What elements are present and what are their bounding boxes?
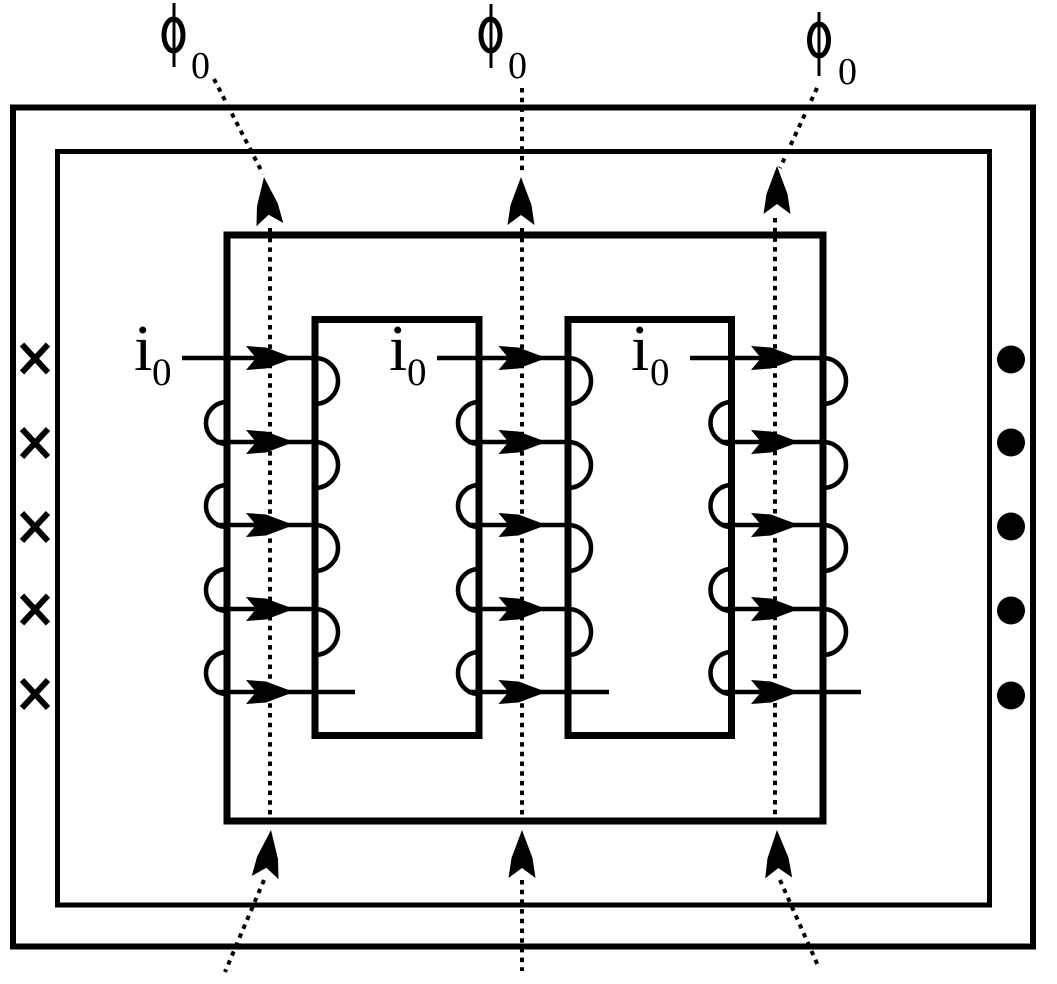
- current-into-page X marker 3: [22, 513, 48, 541]
- svg-text:0: 0: [152, 351, 172, 394]
- current-out-of-page dot marker 3: [997, 513, 1025, 541]
- winding 1 right-side loop arc 1: [315, 358, 338, 404]
- flux arrow up, bottom of centre leg: [509, 830, 536, 878]
- winding 3 turn 1 wire: [690, 356, 823, 361]
- winding 3 current arrow turn 1: [751, 346, 799, 370]
- winding 1 turn 3 wire: [216, 523, 315, 528]
- svg-text:0: 0: [191, 45, 210, 87]
- winding 2 left-side loop arc 1: [458, 402, 479, 444]
- winding 3 right-side loop arc 4: [823, 609, 846, 655]
- current-out-of-page dot marker 2: [997, 429, 1025, 457]
- flux label phi_0 top-middle: [481, 4, 500, 68]
- winding 1 current arrow turn 1: [246, 346, 294, 370]
- winding 1 current arrow turn 4: [246, 597, 294, 621]
- winding 2 right-side loop arc 1: [568, 358, 591, 404]
- svg-text:i: i: [389, 312, 407, 385]
- winding 3 right-side loop arc 1: [823, 358, 846, 404]
- winding 1 left-side loop arc 1: [206, 402, 227, 444]
- core window 1: [315, 320, 479, 736]
- flux arrow up, top of centre leg: [508, 177, 535, 225]
- current-out-of-page dot marker 1: [997, 346, 1025, 374]
- flux arrow up, bottom of right leg: [764, 830, 793, 879]
- winding 2 turn 4 wire: [468, 607, 568, 612]
- winding 1 current arrow turn 3: [246, 513, 294, 537]
- winding 2 current arrow turn 1: [499, 346, 547, 370]
- svg-text:0: 0: [508, 45, 527, 87]
- flux label phi_0 top-left: [164, 3, 183, 67]
- svg-text:0: 0: [407, 351, 427, 394]
- flux arrow up, bottom of left leg: [252, 828, 285, 879]
- winding 1 turn 2 wire: [216, 440, 315, 445]
- winding 2 turn 1 wire: [437, 356, 568, 361]
- svg-text:0: 0: [838, 51, 857, 93]
- winding 2 current arrow turn 3: [499, 513, 547, 537]
- winding 1 left-side loop arc 2: [206, 485, 227, 527]
- transformer core outline: [227, 235, 823, 821]
- flux line phi0 left: bottom diagonal dotted segment: [225, 880, 264, 972]
- winding 3 left-side loop arc 3: [711, 569, 732, 611]
- winding 1 left-side loop arc 3: [206, 569, 227, 611]
- flux line phi0 right: vertical dotted segment through right leg: [773, 218, 777, 828]
- winding 3 right-side loop arc 3: [823, 525, 846, 571]
- winding 2 current arrow turn 5: [499, 680, 547, 704]
- winding 3 turn 4 wire: [721, 607, 823, 612]
- flux label phi_0 top-right: [810, 12, 829, 76]
- winding 2 right-side loop arc 2: [568, 442, 591, 488]
- winding 3 left-side loop arc 1: [711, 402, 732, 444]
- winding 3 turn 2 wire: [721, 440, 823, 445]
- winding 2 turn 3 wire: [468, 523, 568, 528]
- winding 1 turn 4 wire: [216, 607, 315, 612]
- winding 2 right-side loop arc 3: [568, 525, 591, 571]
- winding 3 current arrow turn 2: [751, 430, 799, 454]
- winding 3 turn 5 wire: [721, 690, 861, 695]
- flux line phi0 right: top diagonal dotted segment: [780, 88, 817, 168]
- flux line phi0 middle: bottom dotted segment: [520, 880, 524, 971]
- flux arrow up, top of right leg: [764, 166, 791, 214]
- svg-text:i: i: [134, 312, 152, 385]
- current-into-page X marker 1: [22, 345, 48, 373]
- winding 1 current arrow turn 2: [246, 430, 294, 454]
- winding 3 current arrow turn 3: [751, 513, 799, 537]
- winding 2 current arrow turn 2: [499, 430, 547, 454]
- core window 2: [568, 320, 732, 736]
- winding 3 turn 3 wire: [721, 523, 823, 528]
- winding 2 current arrow turn 4: [499, 597, 547, 621]
- winding 3 current arrow turn 5: [751, 680, 799, 704]
- winding 1 right-side loop arc 2: [315, 442, 338, 488]
- winding 1 turn 5 wire: [216, 690, 355, 695]
- current-into-page X marker 2: [22, 429, 48, 457]
- flux line phi0 middle: top dotted segment: [520, 88, 524, 175]
- flux arrow up, top of left leg: [251, 175, 284, 226]
- winding 1 turn 1 wire: [182, 356, 315, 361]
- winding 2 right-side loop arc 4: [568, 609, 591, 655]
- flux line phi0 right: bottom diagonal dotted segment: [780, 880, 819, 968]
- current-into-page X marker 5: [22, 680, 48, 708]
- winding 3 left-side loop arc 2: [711, 485, 732, 527]
- flux line phi0 left: vertical dotted segment through left leg: [268, 228, 272, 828]
- flux line phi0 left: top diagonal dotted segment: [214, 79, 263, 174]
- flux line phi0 middle: vertical dotted segment through centre leg: [520, 228, 524, 828]
- winding 3 current arrow turn 4: [751, 597, 799, 621]
- winding 2 turn 5 wire: [468, 690, 609, 695]
- current-out-of-page dot marker 5: [997, 682, 1025, 710]
- winding 2 left-side loop arc 4: [458, 652, 479, 694]
- winding 1 left-side loop arc 4: [206, 652, 227, 694]
- winding 2 left-side loop arc 2: [458, 485, 479, 527]
- winding 1 right-side loop arc 4: [315, 609, 338, 655]
- winding 3 left-side loop arc 4: [711, 652, 732, 694]
- winding 3 right-side loop arc 2: [823, 442, 846, 488]
- inner enclosure wall: [58, 152, 990, 906]
- svg-text:i: i: [631, 312, 649, 385]
- winding 2 left-side loop arc 3: [458, 569, 479, 611]
- winding 1 current arrow turn 5: [246, 680, 294, 704]
- winding 1 right-side loop arc 3: [315, 525, 338, 571]
- svg-text:0: 0: [650, 351, 670, 394]
- winding 2 turn 2 wire: [468, 440, 568, 445]
- current-out-of-page dot marker 4: [997, 597, 1025, 625]
- current-into-page X marker 4: [22, 596, 48, 624]
